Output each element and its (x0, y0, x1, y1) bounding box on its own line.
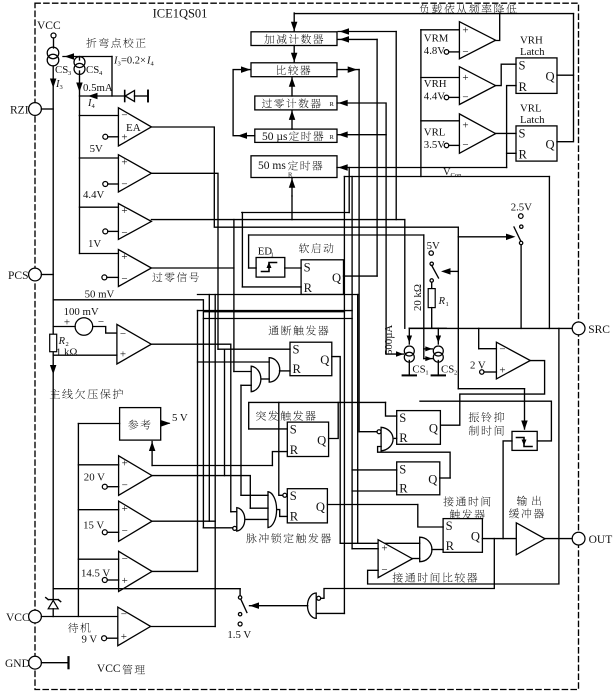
wire: into ED1 (249, 267, 257, 269)
terminal 1.5V (238, 622, 242, 626)
latch ringing-1 (S/R/Q) (397, 411, 441, 445)
wire: harness vertical x224 (224, 349, 226, 475)
wire: PCS level rail to lower gates (53, 300, 203, 528)
wire: 20V comp out to pulse-latch gate (152, 476, 250, 509)
svg-text:−: − (121, 227, 127, 239)
wire: switch control from right (445, 270, 458, 272)
buffer output triangle (516, 523, 545, 555)
wire: + input from below R2 (53, 354, 117, 356)
rail: harness y294 (198, 294, 358, 296)
wire: 9V comp output to harness (151, 626, 216, 628)
latch on-time (S/R/Q) (443, 519, 482, 553)
terminal 5V (103, 134, 108, 139)
resistor R1 (431, 282, 433, 288)
wire: VCon bottom line (344, 176, 549, 178)
wire: burst R down (272, 452, 287, 466)
gate AND (ring R) (381, 427, 393, 451)
svg-text:R: R (290, 509, 299, 523)
svg-text:50 ms: 50 ms (258, 160, 286, 172)
wire: gate out to R (432, 549, 443, 551)
wire: small gate out to big gate (262, 378, 270, 380)
gate AND small2 (237, 508, 245, 531)
label: load-dependent frequency reduction (420, 4, 517, 14)
svg-text:GND: GND (5, 658, 30, 670)
block ED1 (edge detector) (256, 258, 285, 278)
op-amp comparator 1V (118, 204, 151, 240)
svg-text:5V: 5V (90, 143, 103, 155)
svg-text:S: S (399, 462, 406, 476)
svg-text:14.5 V: 14.5 V (81, 567, 110, 579)
svg-text:EA: EA (126, 122, 141, 134)
wire: CS4 down to EA input (79, 71, 81, 116)
svg-text:VCC: VCC (37, 20, 61, 32)
wire: CS top rail (409, 327, 446, 329)
wire: SRC rail (409, 327, 572, 329)
arrow I4 (88, 93, 98, 100)
wire: EA output to switch-control rail (151, 127, 458, 227)
svg-text:3: 3 (68, 70, 71, 77)
rail: harness y318 (203, 318, 352, 320)
wire: gate upper input (340, 542, 420, 544)
box: 50us timer (255, 129, 337, 142)
terminal 4.4V (103, 182, 108, 187)
wire: I4 node to diode (80, 95, 125, 97)
wire: 1V comp + input (80, 206, 119, 208)
block: ringing ED (falling edge) (512, 431, 537, 450)
wire: into CS2 (437, 328, 439, 344)
op-amp standby 9V comparator (118, 607, 151, 646)
wire: harness vertical x209 (208, 295, 210, 522)
svg-text:Q: Q (546, 70, 555, 84)
wire: reference output 5V (161, 422, 169, 424)
wire: latch2 Q out (440, 477, 450, 479)
wire: ED1 to S (285, 267, 301, 269)
wire: into CS2 bottom (424, 358, 433, 360)
terminal 4.4V (444, 95, 449, 100)
wire: switch control 2.5V (458, 236, 512, 238)
wire: VRH + input (421, 77, 460, 79)
wire: 100mV to comp - input (93, 327, 117, 334)
svg-text:R: R (519, 80, 528, 94)
svg-text:+: + (122, 575, 128, 587)
latch VRL (S/R/Q) (516, 126, 557, 161)
svg-text:R: R (304, 281, 313, 295)
wire: PCS to rail (41, 274, 53, 276)
switch blade 1.5V (241, 599, 247, 612)
svg-text:=0.2×: =0.2× (121, 56, 146, 67)
svg-text:Q: Q (320, 353, 329, 367)
wire: standby rail (53, 588, 240, 590)
wire: VCon long vertical (343, 177, 345, 614)
label: trigger (line2) (450, 509, 485, 519)
svg-text:−: − (499, 344, 505, 356)
latch pulse-lock (287, 489, 327, 523)
port RZI (29, 103, 42, 116)
terminal bar of diode wire (147, 91, 149, 102)
svg-text:Q: Q (471, 530, 480, 544)
wire: VRH comp out to VRH latch S (496, 64, 516, 85)
svg-text:VRL: VRL (520, 103, 542, 115)
wire: 2V comp out loop to ring latch Q (440, 361, 544, 426)
svg-text:3: 3 (60, 84, 63, 91)
svg-text:+: + (122, 503, 128, 515)
wire: into ring latch S (386, 402, 397, 416)
svg-text:Q: Q (332, 271, 341, 285)
svg-text:50 mV: 50 mV (85, 288, 115, 300)
svg-text:CS: CS (412, 364, 425, 376)
wire: gate out to R (280, 370, 291, 372)
op-amp EA (error amplifier) (118, 108, 151, 146)
wire: VRL + input (421, 120, 460, 122)
wire: harness down to CS rail (404, 220, 406, 329)
box: comparator 比较器 (251, 63, 337, 77)
wire: rail up to 50ms R line (348, 168, 350, 213)
port PCS (29, 268, 42, 281)
switch contact top (238, 596, 241, 599)
zener diode to VCC (46, 598, 61, 602)
wire: 1V comp output long rail (151, 219, 404, 221)
wire: SRC to - input (478, 328, 480, 348)
svg-text:−: − (121, 110, 127, 122)
switch blade 2.5V (514, 227, 521, 241)
wire: up into 50ms timer bottom (291, 178, 293, 196)
svg-text:S: S (304, 260, 311, 274)
wire: GND stub (41, 662, 68, 664)
svg-text:Con: Con (451, 172, 463, 179)
svg-text:9 V: 9 V (82, 634, 98, 646)
bubble on S input (283, 493, 287, 497)
wire: reset R line for zero-cross counter (337, 103, 386, 354)
wire: drop into up-down counter (293, 13, 295, 31)
svg-text:CS: CS (55, 64, 68, 76)
wire: gate upper input (198, 361, 270, 363)
wire: gate out to R (394, 437, 396, 439)
svg-text:VRL: VRL (424, 126, 446, 138)
wire: down into ED box (524, 389, 526, 429)
label: standby (68, 623, 90, 633)
wire: small gate in1 (234, 371, 251, 373)
latch burst (S/R/Q) (287, 422, 328, 456)
svg-text:−: − (462, 139, 468, 151)
svg-text:OUT: OUT (589, 534, 613, 546)
svg-text:PCS: PCS (8, 270, 28, 282)
wire: harness vertical x357 (357, 295, 359, 544)
op-amp comparator 4.4V (118, 155, 151, 192)
label: ringing suppression (line1) (469, 412, 505, 422)
svg-text:+: + (462, 25, 468, 37)
svg-text:1: 1 (425, 370, 428, 377)
switch blade 5V (432, 266, 439, 279)
box: zero-cross counter 过零计数器 (255, 96, 337, 110)
wire: S input from top (279, 402, 283, 495)
port GND (29, 656, 42, 669)
wire: burst Q up to loop (329, 402, 339, 438)
gate: standby inhibit (mirrored, output left) (307, 593, 316, 618)
svg-text:+: + (462, 72, 468, 84)
ground CS1 (408, 361, 410, 376)
op-amp zero-cross comparator (118, 250, 151, 287)
terminal 2V (480, 370, 484, 374)
label: buffer (line2) (509, 508, 544, 518)
svg-text:Q: Q (429, 422, 438, 436)
op-amp VRH comparator (459, 67, 495, 105)
svg-text:5 V: 5 V (172, 412, 188, 424)
svg-text:−: − (121, 179, 127, 191)
svg-text:R: R (290, 443, 299, 457)
svg-text:R: R (330, 101, 335, 108)
wire: Q feedback to inhibit gate (324, 539, 494, 598)
rail: harness y235 (249, 234, 424, 236)
label: on-time (line1) (443, 496, 490, 506)
wire: 15V comp out to harness vertical (152, 520, 215, 522)
op-amp on-time comparator (378, 540, 412, 578)
label: on-time comparator (393, 572, 478, 582)
wire: into up-down counter in1 (338, 31, 396, 33)
wire: long vertical comparator output down to ring-gate (358, 70, 360, 432)
wire: on-off Q down to on-time gate (332, 357, 340, 544)
op-amp 15V comparator (119, 501, 152, 541)
burst trigger outline 突发触发器 (249, 402, 386, 429)
arrow 0.5mA current (76, 83, 83, 93)
svg-text:S: S (293, 343, 300, 357)
section box left edge / VCon node (420, 30, 422, 177)
wire: VCC to CS3 (53, 38, 55, 48)
label: pulse lock trigger (246, 533, 331, 543)
current source CS1 (404, 346, 414, 356)
latch VRH (S/R/Q) (516, 58, 557, 94)
wire: harness down to soft-start R (241, 213, 243, 287)
svg-text:Q: Q (317, 433, 326, 447)
svg-text:S: S (446, 519, 453, 533)
bubble inverted input (377, 430, 381, 434)
wire: 100mV left (53, 326, 75, 328)
svg-text:1 kΩ: 1 kΩ (56, 347, 78, 359)
wire: to ringing ED trigger (458, 388, 524, 390)
wire: reset R to 50us timer (338, 134, 387, 136)
wire: VRM + input (421, 29, 460, 31)
bubble on small gate input (233, 526, 237, 530)
wire: 14.5V comp out up to rail (152, 311, 198, 572)
block: reference 参考 (120, 408, 161, 441)
svg-text:S: S (290, 489, 297, 503)
svg-text:4.8V: 4.8V (424, 45, 445, 57)
wire: 50us timer up to zero-cross counter (291, 110, 293, 129)
wire: into CS1 (408, 328, 410, 344)
svg-text:VCC: VCC (6, 612, 30, 624)
svg-text:S: S (290, 423, 297, 437)
wire: Q to buffer (482, 538, 516, 540)
label: soft start (299, 243, 334, 253)
wire: VCC sense bus vertical (77, 424, 79, 617)
wire: EA - input (80, 115, 119, 117)
svg-text:+: + (381, 543, 387, 555)
wire: 50us timer loop to comparator input (233, 70, 255, 136)
wire: vertical x241 up to gate hook (240, 385, 242, 465)
svg-text:S: S (519, 126, 526, 140)
terminal 20V (102, 484, 107, 489)
svg-text:R: R (58, 336, 66, 347)
svg-text:R: R (330, 134, 335, 141)
wire: feed up into reference bottom (151, 442, 153, 466)
arrow I3 current (50, 79, 57, 89)
port VCC bottom (29, 610, 42, 623)
wire: mirror line to CS3 (63, 56, 112, 58)
wire: - input ramp from SRC rail (368, 328, 559, 584)
switch contact bottom (430, 279, 433, 282)
wire: tall gate out to R (277, 510, 287, 517)
wire: R1 bottom to rail (431, 308, 433, 329)
svg-text:2 V: 2 V (470, 360, 486, 372)
wire: gate in1 (241, 494, 268, 496)
wire: comparator output right (337, 69, 359, 71)
wire: into on-time S (418, 505, 443, 528)
wire: + input (352, 548, 378, 550)
wire: top rail down to latch Q tie (573, 14, 575, 76)
svg-text:+: + (462, 120, 468, 132)
terminal 3.5V (444, 143, 449, 148)
source 100mV (75, 318, 93, 336)
svg-text:CS: CS (441, 364, 454, 376)
wire: soft-start Q out (344, 275, 378, 277)
arrow: current down rail (50, 365, 57, 375)
svg-text:5V: 5V (427, 240, 440, 252)
op-amp 14.5V comparator (119, 551, 152, 591)
latch soft-start (S/R/Q) (301, 260, 343, 295)
label: bend point correction (86, 38, 145, 48)
wire: rail down to on-time + input (351, 177, 353, 549)
current source CS2 (433, 346, 443, 356)
svg-text:Latch: Latch (520, 46, 545, 58)
terminal 50mV (102, 275, 107, 280)
wire: latch Q outputs tied (557, 75, 574, 142)
svg-text:15 V: 15 V (83, 520, 104, 532)
wire: pulse-lock Q out to on-time S (327, 504, 417, 506)
wire: VCC to standby comparator (41, 616, 117, 618)
current source CS3 (47, 47, 59, 59)
wire: harness up to counter input 1 (395, 32, 397, 220)
wire: VRM comparator output up to top rail (496, 13, 500, 41)
wire: latch2 S input (352, 469, 397, 471)
wire: VCon vertical down to SRC rail (548, 177, 550, 329)
svg-text:3.5V: 3.5V (424, 139, 445, 151)
svg-text:Latch: Latch (520, 114, 545, 126)
wire: RZI to rail (41, 108, 53, 110)
resistor R2 (50, 334, 57, 352)
svg-text:R: R (519, 148, 528, 162)
diode D1 (124, 91, 126, 102)
wire: soft-start Q up to counter input (376, 39, 378, 276)
terminal 2.5V (519, 214, 524, 219)
svg-text:−: − (121, 273, 127, 285)
svg-text:VRM: VRM (424, 33, 449, 45)
wire: main left vertical rail (I3/RZI/PCS/R2 line) (52, 66, 54, 600)
wire: R tie down to 50ms reset line (506, 153, 508, 167)
op-amp 20V comparator (119, 456, 152, 496)
op-amp 2V ringing comparator (496, 342, 530, 379)
gate AND (on-off R) (269, 358, 280, 382)
svg-text:−: − (381, 564, 387, 576)
svg-text:−: − (120, 328, 126, 340)
wire: ED left output down to buffer input (503, 441, 512, 539)
svg-text:RZI: RZI (10, 105, 29, 117)
wire: VRL comp out to VRL latch S (496, 132, 516, 134)
wire: latch2 R input (352, 490, 397, 492)
wire: gate in2 from 20V comp (250, 507, 268, 509)
svg-text:0.5mA: 0.5mA (83, 82, 113, 94)
wire: counter to comparator (293, 46, 295, 63)
wire: control vertical for switches (457, 227, 459, 389)
terminal 1V (103, 229, 108, 234)
svg-text:Q: Q (316, 500, 325, 514)
switch contact mid (238, 613, 241, 616)
port OUT (572, 532, 585, 545)
wire: small gate bubble input (203, 527, 232, 529)
wire: comparator-output into gate bubble (359, 431, 377, 433)
latch ringing-2 (S/R/Q) (397, 462, 440, 495)
svg-text:1V: 1V (88, 238, 101, 250)
port SRC (572, 322, 585, 335)
svg-text:−: − (122, 553, 128, 565)
wire: 4.4V comp output to on-off trigger S (151, 173, 218, 349)
svg-text:VRH: VRH (520, 35, 543, 47)
svg-text:R: R (446, 539, 455, 553)
wire: gate lower input from VCon line (316, 612, 344, 614)
wire: mirror vertical (111, 57, 113, 97)
svg-text:50 µs: 50 µs (262, 131, 288, 143)
svg-text:2.5V: 2.5V (511, 201, 532, 213)
wire: gate output to 1.5V switch (250, 605, 308, 607)
gate AND small (251, 366, 261, 392)
wire: into burst S (249, 428, 288, 430)
terminal 14.5V (102, 578, 107, 583)
svg-text:+: + (499, 365, 505, 377)
terminal 15V (102, 530, 107, 535)
svg-text:Q: Q (546, 138, 555, 152)
label: mains undervoltage protection (50, 389, 123, 399)
svg-text:−: − (121, 609, 127, 621)
label: burst trigger (256, 411, 316, 421)
svg-text:SRC: SRC (588, 324, 610, 336)
svg-text:+: + (120, 349, 126, 361)
svg-text:ICE1QS01: ICE1QS01 (153, 7, 208, 21)
wire: into up-down counter in2 (338, 38, 377, 40)
current source CS4 (74, 57, 85, 68)
svg-text:S: S (399, 411, 406, 425)
op-amp mains undervoltage comparator (117, 324, 151, 364)
wire: gate lower input from latch2 Q (378, 447, 451, 479)
wire: buffer to OUT (545, 538, 572, 540)
wire: vertical x234 (233, 220, 235, 372)
svg-text:CS: CS (86, 64, 99, 76)
svg-text:1.5 V: 1.5 V (227, 629, 251, 641)
terminal VCC top (51, 33, 56, 38)
wire: mirror feed CS2 (423, 235, 425, 359)
svg-text:R: R (293, 362, 302, 376)
label: zero cross signal (152, 272, 199, 282)
svg-text:−: − (462, 92, 468, 104)
rail: harness y310 (198, 310, 353, 312)
svg-text:VCC: VCC (97, 663, 121, 675)
gate AND (pulse R) tall (268, 492, 277, 528)
wire: 4.4V comp + input (80, 157, 119, 159)
wire: undervoltage comp output down to gate (151, 344, 231, 512)
svg-text:+: + (122, 458, 128, 470)
wire: bus into reference (78, 423, 119, 425)
svg-text:+: + (121, 251, 127, 263)
wire: top rail from VRM comparator to up-down counter (294, 13, 573, 15)
label: ringing suppression (line2) (469, 425, 504, 435)
svg-text:S: S (519, 58, 526, 72)
